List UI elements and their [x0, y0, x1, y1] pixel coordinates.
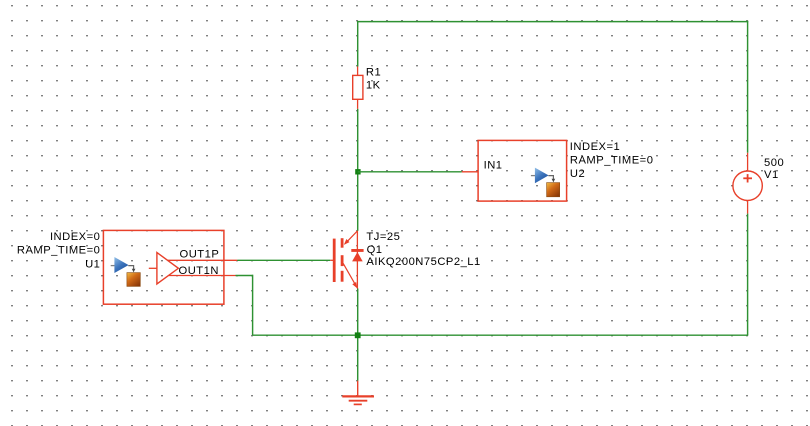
block U2 box [478, 140, 566, 201]
wire left vertical lower (emitter to bottom) [357, 289, 359, 381]
U2 icon input line [531, 175, 535, 177]
svg-text:U2: U2 [570, 168, 585, 180]
source V1 circle [733, 171, 762, 200]
wire OUT1N green segment [236, 275, 253, 277]
svg-text:V1: V1 [764, 169, 779, 181]
wire V1 top lead [747, 153, 749, 171]
wire left vertical upper (to R1) [357, 21, 359, 67]
wire to U2 green [358, 171, 462, 173]
svg-text:TJ=25: TJ=25 [366, 231, 400, 243]
transistor Q1 gate bar [333, 239, 336, 282]
U2 icon elbow arrow [548, 176, 553, 180]
ground bar 3 [354, 403, 362, 405]
wire to U2 red lead [462, 171, 478, 173]
svg-text:1K: 1K [366, 79, 381, 91]
transistor Q1 collector-emitter red net [356, 231, 358, 289]
ground bar 1 [342, 395, 374, 397]
wire OUT1P green segment (gate net) [237, 259, 330, 261]
U1 icon blue triangle [114, 257, 128, 273]
U2 icon blue triangle [535, 168, 549, 184]
U1 icon orange square [127, 273, 140, 287]
diode cathode bar [351, 249, 363, 252]
transistor Q1 emitter diagonal with arrow [343, 263, 357, 287]
wire right vertical upper [747, 21, 749, 153]
wire R1 bottom lead [357, 99, 359, 109]
U1 icon input line [111, 265, 115, 267]
svg-text:OUT1P: OUT1P [180, 249, 220, 261]
svg-text:Q1: Q1 [367, 244, 383, 256]
diode triangle [352, 252, 363, 261]
svg-text:IN1: IN1 [484, 159, 503, 171]
wire bottom horizontal net [253, 334, 749, 336]
wire top horizontal net [357, 21, 748, 23]
U1 icon elbow arrow [128, 266, 133, 270]
node junction bottom [355, 332, 361, 338]
svg-text:R1: R1 [366, 67, 381, 79]
ground bar 2 [349, 400, 368, 402]
wire R1 top lead [357, 67, 359, 76]
transistor Q1 collector diagonal with arrow [345, 231, 357, 244]
svg-text:500: 500 [764, 157, 784, 169]
wire OUT1P red segment [167, 259, 237, 261]
resistor R1 [353, 75, 363, 99]
svg-text:INDEX=0: INDEX=0 [50, 231, 100, 243]
wire left vertical middle [357, 109, 359, 231]
buffer triangle (U1 output symbol) [157, 253, 179, 285]
ground stub [357, 381, 359, 396]
svg-text:RAMP_TIME=0: RAMP_TIME=0 [17, 244, 101, 256]
transistor Q1 body bar dashes [341, 238, 344, 248]
V1 plus sign [743, 177, 752, 179]
wire V1 bottom lead [747, 200, 749, 213]
block U1 box [103, 230, 223, 304]
wire gate red stub [330, 259, 333, 261]
svg-text:INDEX=1: INDEX=1 [570, 141, 620, 153]
svg-text:AIKQ200N75CP2_L1: AIKQ200N75CP2_L1 [366, 256, 480, 268]
U2 icon orange square [547, 183, 560, 197]
svg-text:U1: U1 [85, 258, 100, 270]
wire right vertical lower [747, 214, 749, 336]
buffer input stub [149, 267, 157, 269]
svg-text:RAMP_TIME=0: RAMP_TIME=0 [570, 154, 654, 166]
wire OUT1N vertical drop [252, 275, 254, 336]
wire OUT1N red segment [169, 275, 236, 277]
node junction to U2 [355, 169, 360, 174]
